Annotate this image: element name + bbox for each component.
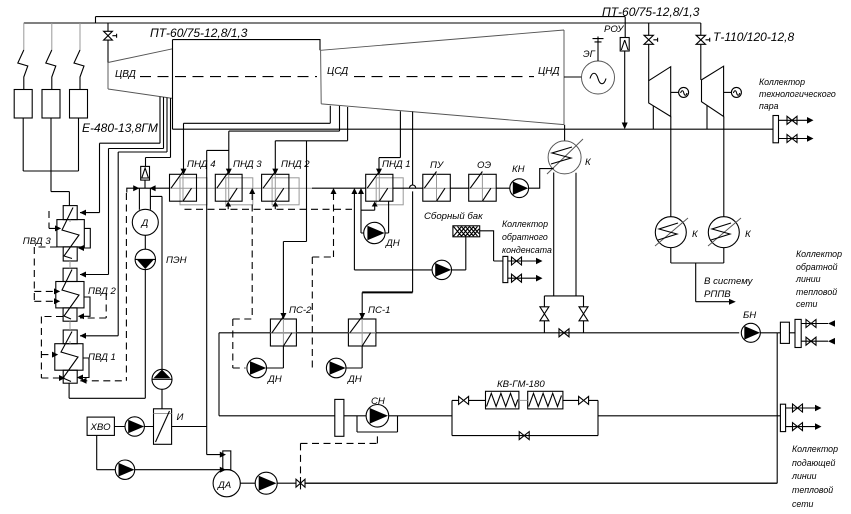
svg-text:ПНД 3: ПНД 3: [233, 159, 262, 170]
svg-text:КВ-ГМ-180: КВ-ГМ-180: [497, 379, 545, 390]
svg-text:СН: СН: [371, 396, 385, 407]
svg-text:Коллектор: Коллектор: [796, 249, 842, 259]
svg-text:ЦНД: ЦНД: [538, 66, 560, 77]
svg-text:РППВ: РППВ: [704, 289, 731, 300]
svg-text:ДН: ДН: [347, 374, 362, 385]
svg-text:подающей: подающей: [792, 458, 835, 468]
svg-text:ПТ-60/75-12,8/1,3: ПТ-60/75-12,8/1,3: [602, 5, 700, 19]
svg-text:ПЭН: ПЭН: [166, 255, 187, 266]
svg-text:ПНД 4: ПНД 4: [187, 159, 216, 170]
svg-text:ПНД 1: ПНД 1: [382, 159, 411, 170]
svg-text:сети: сети: [796, 299, 818, 309]
svg-text:Коллектор: Коллектор: [759, 77, 805, 87]
svg-text:Е-480-13,8ГМ: Е-480-13,8ГМ: [82, 121, 158, 135]
svg-text:линии: линии: [795, 274, 821, 284]
svg-text:ЦСД: ЦСД: [327, 66, 348, 77]
svg-text:Сборный бак: Сборный бак: [424, 211, 483, 222]
svg-text:ЭГ: ЭГ: [583, 49, 596, 60]
svg-text:ХВО: ХВО: [90, 422, 112, 433]
svg-text:технологического: технологического: [759, 89, 836, 99]
svg-text:КН: КН: [512, 164, 525, 175]
svg-text:ДН: ДН: [385, 238, 400, 249]
svg-text:ПВД 3: ПВД 3: [23, 236, 52, 247]
svg-text:линии: линии: [791, 471, 817, 481]
svg-text:ДН: ДН: [267, 374, 282, 385]
svg-text:ПВД 1: ПВД 1: [88, 352, 116, 363]
svg-text:В систему: В систему: [704, 276, 754, 287]
svg-text:тепловой: тепловой: [796, 287, 837, 297]
svg-text:обратного: обратного: [502, 232, 548, 242]
svg-text:И: И: [177, 412, 184, 423]
svg-text:тепловой: тепловой: [792, 485, 833, 495]
svg-text:Коллектор: Коллектор: [502, 219, 548, 229]
svg-text:ПС-2: ПС-2: [289, 305, 312, 316]
svg-text:ПВД 2: ПВД 2: [88, 286, 117, 297]
svg-text:РОУ: РОУ: [604, 24, 624, 35]
svg-text:БН: БН: [743, 310, 756, 321]
svg-text:Д: Д: [141, 218, 149, 229]
svg-text:сети: сети: [792, 499, 814, 509]
svg-text:ОЭ: ОЭ: [477, 160, 491, 171]
svg-text:ПТ-60/75-12,8/1,3: ПТ-60/75-12,8/1,3: [150, 26, 248, 40]
svg-text:ПНД 2: ПНД 2: [281, 159, 310, 170]
svg-text:ПС-1: ПС-1: [368, 305, 390, 316]
svg-text:конденсата: конденсата: [502, 245, 552, 255]
svg-text:пара: пара: [759, 101, 779, 111]
svg-text:ПУ: ПУ: [430, 160, 444, 171]
svg-text:ЦВД: ЦВД: [115, 69, 136, 80]
svg-text:Коллектор: Коллектор: [792, 444, 838, 454]
svg-text:обратной: обратной: [796, 262, 838, 272]
svg-text:Т-110/120-12,8: Т-110/120-12,8: [713, 30, 794, 44]
svg-text:ДА: ДА: [217, 480, 231, 491]
